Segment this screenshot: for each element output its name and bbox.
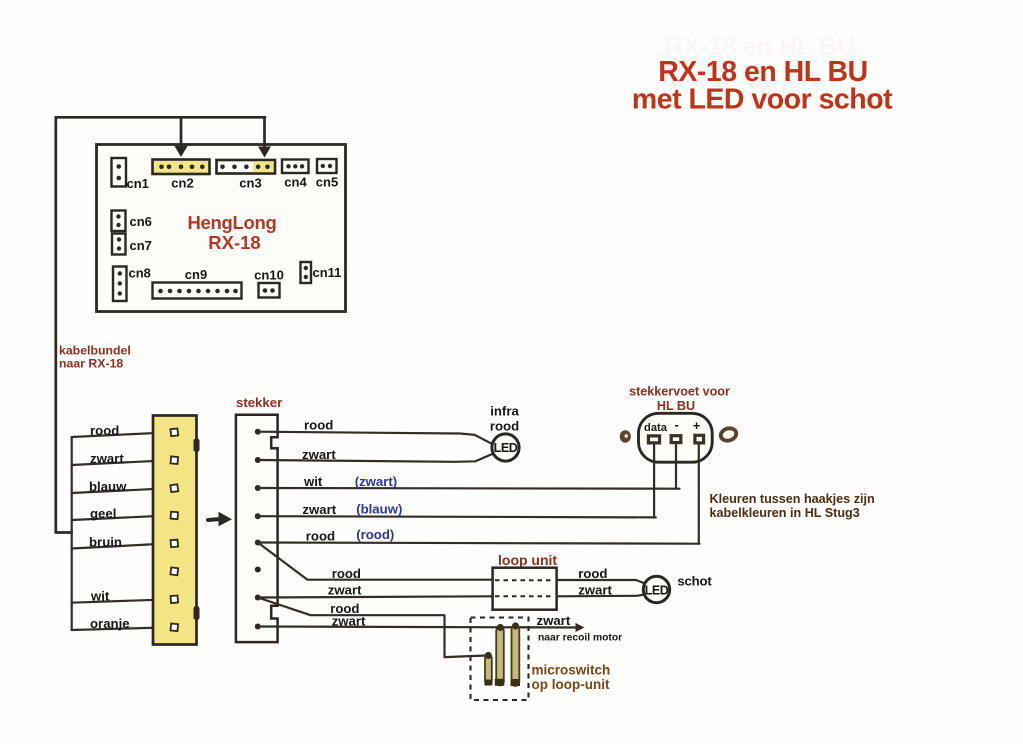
wire arrow to cn3 xyxy=(258,117,271,157)
connector cn7 xyxy=(112,234,152,255)
stekker pin 4 xyxy=(255,513,261,519)
stekker pin 1 xyxy=(255,429,261,435)
stekker pin 3 xyxy=(255,485,261,491)
svg-text:(zwart): (zwart) xyxy=(355,474,398,489)
stekkervoet left dot xyxy=(620,430,631,442)
svg-text:rood: rood xyxy=(90,423,119,438)
strip pin 4 xyxy=(171,512,178,519)
stekker pin 5 xyxy=(255,540,261,546)
svg-text:cn11: cn11 xyxy=(313,265,342,280)
wire rood to infra LED xyxy=(258,418,493,445)
svg-text:cn10: cn10 xyxy=(254,268,284,283)
wire wit left xyxy=(72,589,171,604)
svg-text:(blauw): (blauw) xyxy=(356,502,402,517)
svg-text:Kleuren tussen haakjes zijn: Kleuren tussen haakjes zijn xyxy=(710,492,875,506)
svg-text:zwart: zwart xyxy=(302,502,336,517)
svg-text:zwart: zwart xyxy=(332,614,366,629)
svg-text:op loop-unit: op loop-unit xyxy=(532,677,610,692)
label infra rood xyxy=(490,404,520,434)
connector cn9 xyxy=(153,267,242,299)
stekker pin 8 xyxy=(255,624,261,630)
svg-text:RX-18: RX-18 xyxy=(208,232,260,253)
svg-text:bruin: bruin xyxy=(89,535,122,550)
svg-text:blauw: blauw xyxy=(89,479,127,494)
wire top bus horizontal xyxy=(56,116,265,119)
svg-text:rood: rood xyxy=(306,529,335,544)
connector cn2 xyxy=(153,160,210,191)
svg-text:oranje: oranje xyxy=(90,616,130,631)
svg-text:wit: wit xyxy=(303,474,323,489)
wire zwart to data xyxy=(258,502,656,518)
svg-text:cn9: cn9 xyxy=(185,267,207,282)
svg-text:rood: rood xyxy=(304,418,333,433)
svg-text:zwart: zwart xyxy=(90,451,124,466)
svg-text:schot: schot xyxy=(677,574,712,589)
connector cn6 xyxy=(112,211,152,232)
svg-text:infra: infra xyxy=(490,404,519,419)
strip pin 3 xyxy=(170,484,178,492)
wire wit to minus xyxy=(258,474,680,489)
wire kabelbundel vertical xyxy=(56,117,72,532)
svg-text:loop unit: loop unit xyxy=(498,552,557,568)
svg-text:zwart: zwart xyxy=(302,447,336,462)
svg-text:kabelkleuren in HL Stug3: kabelkleuren in HL Stug3 xyxy=(710,506,860,520)
stekkervoet body xyxy=(639,413,713,462)
svg-text:stekkervoet voor: stekkervoet voor xyxy=(629,385,730,399)
wire plus down xyxy=(698,445,700,544)
svg-text:LED: LED xyxy=(645,584,669,598)
wire arrow to cn2 xyxy=(175,117,188,157)
microswitch pin middle xyxy=(495,624,504,686)
LED schot xyxy=(643,576,669,602)
svg-text:HL BU: HL BU xyxy=(657,399,695,413)
stekker pin 2 xyxy=(255,457,261,463)
svg-text:geel: geel xyxy=(90,506,116,521)
svg-text:wit: wit xyxy=(90,589,110,604)
microswitch dashed box xyxy=(471,618,529,701)
svg-text:rood: rood xyxy=(490,419,519,434)
strip pin 2 xyxy=(171,456,179,464)
wire rood to plus xyxy=(258,527,700,544)
svg-text:zwart: zwart xyxy=(578,583,612,598)
connector cn10 xyxy=(254,268,284,298)
svg-text:microswitch: microswitch xyxy=(532,663,611,678)
svg-text:naar recoil motor: naar recoil motor xyxy=(538,633,622,644)
svg-text:rood: rood xyxy=(332,566,361,581)
wire zwart left xyxy=(72,451,171,466)
svg-text:cn7: cn7 xyxy=(130,238,152,253)
left cable bracket vertical xyxy=(71,437,73,630)
connector cn8 xyxy=(113,266,151,302)
svg-text:zwart: zwart xyxy=(328,583,362,598)
svg-text:cn5: cn5 xyxy=(316,175,338,190)
terminal data xyxy=(644,422,668,443)
LED infra rood xyxy=(492,434,519,461)
svg-text:(rood): (rood) xyxy=(356,527,394,542)
svg-text:HengLong: HengLong xyxy=(187,212,276,233)
RX-18 board outline xyxy=(97,145,346,312)
svg-text:cn3: cn3 xyxy=(239,176,261,191)
svg-text:data: data xyxy=(644,422,668,434)
svg-text:cn1: cn1 xyxy=(127,176,149,191)
svg-text:cn8: cn8 xyxy=(129,266,151,281)
terminal plus xyxy=(693,418,704,443)
svg-text:naar RX-18: naar RX-18 xyxy=(59,357,123,371)
strip pin 7 xyxy=(171,596,179,604)
stekker housing xyxy=(236,415,278,642)
wire zwart to loop unit xyxy=(258,583,493,598)
wire data down xyxy=(653,445,655,518)
svg-text:rood: rood xyxy=(578,566,607,581)
wire rood to loop unit xyxy=(258,543,493,582)
svg-text:-: - xyxy=(675,417,679,432)
connector cn11 xyxy=(301,262,342,283)
connector cn3 xyxy=(217,160,276,191)
wire zwart naar recoil motor xyxy=(258,614,585,633)
wire zwart loop unit to LED schot xyxy=(557,583,645,598)
wire minus down xyxy=(675,445,677,489)
wire rood left xyxy=(72,423,171,438)
wire rood loop unit to LED schot xyxy=(557,566,645,584)
wire rood to microswitch xyxy=(258,598,486,658)
terminal minus xyxy=(671,417,681,443)
label microswitch xyxy=(532,663,611,693)
wire bruin left xyxy=(72,535,171,550)
strip tab bottom xyxy=(194,606,200,620)
loop unit box xyxy=(493,568,557,610)
wire zwart to infra LED xyxy=(258,447,493,462)
svg-text:LED: LED xyxy=(494,441,518,455)
wire oranje left xyxy=(72,616,171,631)
wire blauw left xyxy=(72,479,171,494)
wire geel left xyxy=(72,506,171,521)
microswitch pin right xyxy=(511,622,521,686)
svg-text:kabelbundel: kabelbundel xyxy=(59,344,131,358)
stekkervoet right ring xyxy=(719,427,737,443)
loop unit dashed line 1 xyxy=(495,579,554,581)
svg-text:zwart: zwart xyxy=(537,613,571,628)
label stekkervoet voor xyxy=(629,385,730,413)
svg-text:+: + xyxy=(693,418,701,433)
yellow connector strip xyxy=(153,416,197,645)
svg-text:cn2: cn2 xyxy=(171,176,193,191)
stekker pin 6 xyxy=(255,567,261,573)
connector cn1 xyxy=(112,158,149,191)
loop unit dashed line 2 xyxy=(495,595,554,597)
big arrow to stekker xyxy=(208,512,232,527)
microswitch pin left xyxy=(485,652,493,686)
svg-text:cn4: cn4 xyxy=(284,175,307,190)
strip tab top xyxy=(194,439,200,453)
strip pin 5 xyxy=(171,540,179,548)
strip pin 1 xyxy=(170,428,178,436)
svg-text:met LED voor schot: met LED voor schot xyxy=(632,84,893,116)
svg-text:cn6: cn6 xyxy=(130,214,152,229)
strip pin 8 xyxy=(170,623,178,631)
connector cn4 xyxy=(282,160,309,190)
strip pin 6 xyxy=(170,567,178,575)
stekker pin 7 xyxy=(255,595,261,601)
svg-text:stekker: stekker xyxy=(236,395,282,410)
connector cn5 xyxy=(316,159,338,190)
label kabelbundel naar RX-18 xyxy=(59,344,131,371)
